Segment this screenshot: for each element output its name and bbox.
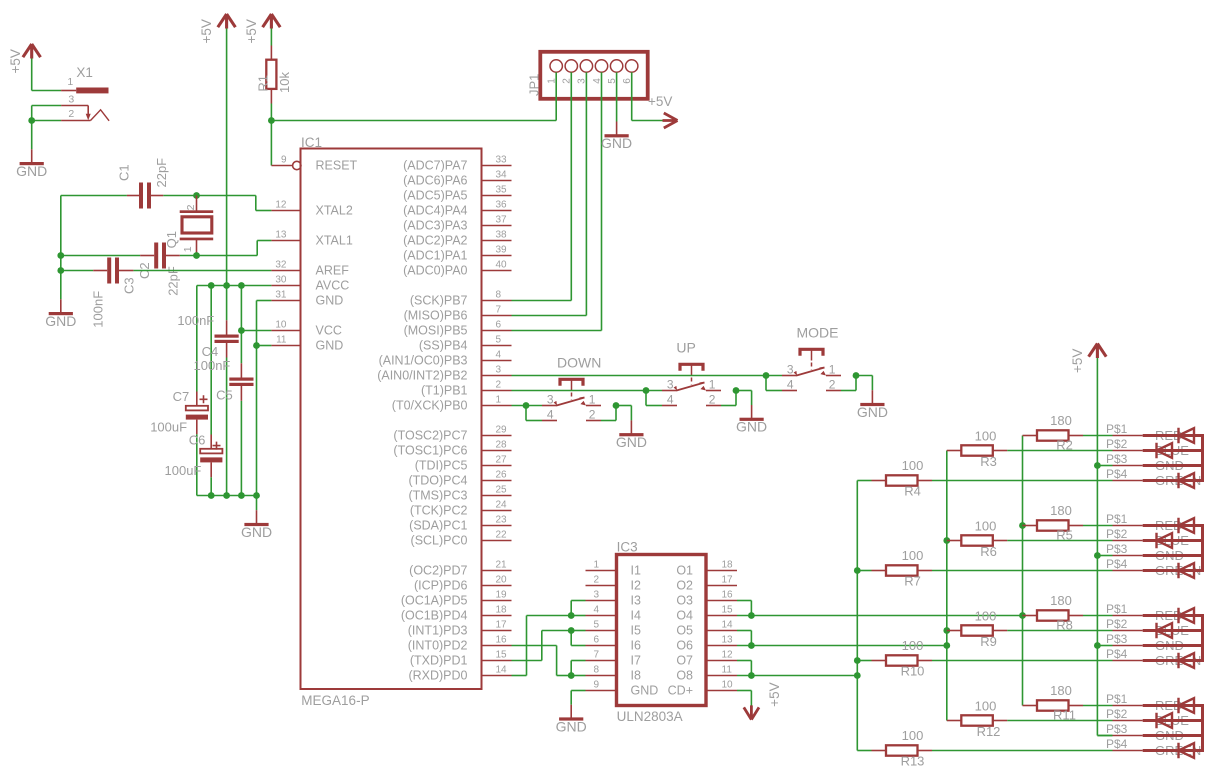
capacitor C5 column wire — [240, 286, 242, 364]
wire RESET node to JP1 pin1 — [271, 120, 556, 122]
svg-text:9: 9 — [281, 155, 287, 166]
power +5V arrow (R1) — [263, 14, 281, 29]
svg-text:22pF: 22pF — [154, 158, 169, 188]
wire O5 to O6 — [737, 630, 751, 632]
svg-text:1: 1 — [593, 560, 599, 571]
switch MODE pin 1 — [826, 375, 841, 377]
junction I5 node — [568, 627, 575, 634]
svg-text:I2: I2 — [631, 579, 641, 593]
svg-text:39: 39 — [496, 245, 508, 256]
power +5V arrow (LED rail) — [1089, 344, 1107, 359]
svg-text:X1: X1 — [76, 65, 93, 80]
resistor R1 — [270, 46, 272, 60]
pin 6 IC1 (MOSI)PB5 — [482, 330, 512, 332]
svg-text:VCC: VCC — [316, 324, 342, 338]
ground GND (crystal) — [60, 298, 62, 300]
svg-text:+5V: +5V — [8, 49, 23, 73]
wire R3 to LED — [1007, 450, 1112, 452]
pin 23 IC1 (SDA)PC1 — [482, 525, 512, 527]
wire LED rail stub group3 — [1097, 645, 1112, 647]
wire R5 to LED — [1083, 525, 1113, 527]
svg-text:AREF: AREF — [316, 264, 350, 278]
wire RXD PD0 to I4 — [512, 675, 527, 677]
svg-text:P$2: P$2 — [1106, 617, 1128, 631]
svg-text:100: 100 — [902, 638, 924, 653]
svg-text:24: 24 — [496, 500, 508, 511]
svg-text:100: 100 — [975, 518, 997, 533]
LED red group2 — [1179, 518, 1195, 533]
pin 24 IC1 (TCK)PC2 — [482, 510, 512, 512]
ground GND (decoupling) — [256, 496, 258, 511]
LED green group1 — [1179, 473, 1195, 488]
svg-text:(OC2)PD7: (OC2)PD7 — [409, 564, 467, 578]
svg-text:GND: GND — [601, 135, 632, 151]
pin 2 IC1 (T1)PB1 — [482, 390, 512, 392]
ground GND (DOWN) — [630, 406, 632, 421]
svg-text:(AIN1/OC0)PB3: (AIN1/OC0)PB3 — [379, 354, 468, 368]
svg-text:3: 3 — [68, 93, 74, 105]
svg-text:11: 11 — [276, 335, 287, 346]
pin 5 IC1 (SS)PB4 — [482, 345, 512, 347]
pin 30 IC1 AVCC — [271, 285, 300, 287]
svg-text:+5V: +5V — [648, 94, 672, 109]
pin 9 IC3 GND — [586, 690, 617, 692]
power +5V arrow down (CD+) — [744, 705, 759, 719]
pin 11 IC1 GND — [271, 345, 300, 347]
svg-text:(INT0)PD2: (INT0)PD2 — [408, 639, 468, 653]
svg-text:180: 180 — [1050, 413, 1072, 428]
svg-text:9: 9 — [593, 680, 599, 691]
junction GND pin11 node — [253, 342, 260, 349]
junction I8 node — [568, 672, 575, 679]
svg-text:180: 180 — [1050, 683, 1072, 698]
svg-text:10k: 10k — [277, 72, 292, 93]
svg-text:2: 2 — [589, 408, 596, 422]
LED module group4 pins — [1113, 705, 1143, 707]
svg-text:(MISO)PB6: (MISO)PB6 — [404, 309, 468, 323]
junction green feed R7 — [854, 567, 861, 574]
svg-text:GND: GND — [16, 163, 47, 179]
svg-text:R6: R6 — [980, 544, 997, 559]
pin 40 IC1 (ADC0)PA0 — [482, 270, 512, 272]
pin 19 IC1 (OC1A)PD5 — [482, 600, 512, 602]
switch MODE lever — [797, 368, 825, 376]
svg-text:21: 21 — [496, 560, 508, 571]
svg-text:2: 2 — [185, 204, 197, 210]
switch UP actuator bracket — [680, 364, 703, 370]
svg-text:4: 4 — [593, 605, 599, 616]
LED blue group3 — [1157, 623, 1173, 638]
wire TXD PD1 to I5 — [512, 660, 542, 662]
pin 3 IC3 I3 — [586, 600, 617, 602]
pin 2 IC3 I2 — [586, 585, 617, 587]
LED module group3 pins — [1113, 615, 1143, 617]
resistor R5 180 — [1023, 525, 1038, 527]
svg-text:35: 35 — [496, 185, 508, 196]
LED green group3 — [1179, 653, 1195, 668]
svg-text:R4: R4 — [904, 484, 921, 499]
svg-text:40: 40 — [496, 260, 508, 271]
svg-text:28: 28 — [496, 440, 508, 451]
svg-text:7: 7 — [593, 650, 599, 661]
svg-text:P$1: P$1 — [1106, 422, 1128, 436]
svg-text:(AIN0/INT2)PB2: (AIN0/INT2)PB2 — [377, 369, 467, 383]
LED module group4 internal bus — [1143, 704, 1203, 707]
ground GND (JP1) — [616, 121, 618, 123]
svg-text:32: 32 — [275, 260, 287, 271]
svg-text:MODE: MODE — [797, 325, 839, 341]
svg-text:CD+: CD+ — [668, 684, 693, 698]
svg-text:100nF: 100nF — [91, 291, 106, 328]
junction I4 node — [568, 612, 575, 619]
svg-text:100nF: 100nF — [194, 358, 231, 373]
wire R12 to LED — [1007, 720, 1112, 722]
svg-text:6: 6 — [593, 635, 599, 646]
svg-text:17: 17 — [722, 575, 734, 586]
svg-text:18: 18 — [496, 605, 508, 616]
svg-text:1: 1 — [182, 246, 194, 252]
svg-text:(ADC3)PA3: (ADC3)PA3 — [403, 219, 467, 233]
pin 38 IC1 (ADC2)PA2 — [482, 240, 512, 242]
capacitor C1 — [127, 195, 139, 197]
op-amp IC1 body (MEGA16-P) — [301, 149, 482, 690]
svg-text:4: 4 — [787, 378, 794, 392]
pin 1 IC1 (T0/XCK)PB0 — [482, 405, 512, 407]
svg-text:2: 2 — [496, 380, 502, 391]
switch MODE pin 2 — [826, 390, 841, 392]
svg-text:3: 3 — [667, 378, 674, 392]
wire O8 to green feed — [737, 675, 857, 677]
svg-text:O5: O5 — [676, 624, 693, 638]
junction XTAL2 node — [193, 192, 200, 199]
wire R9 to LED — [1007, 630, 1112, 632]
pin 22 IC1 (SCL)PC0 — [482, 540, 512, 542]
svg-text:2: 2 — [68, 108, 74, 120]
svg-text:37: 37 — [496, 215, 508, 226]
svg-text:18: 18 — [722, 560, 734, 571]
pin 1 IC3 I1 — [586, 570, 617, 572]
svg-text:R3: R3 — [980, 454, 997, 469]
wire MODE pin1 to gnd — [856, 375, 872, 377]
wire PB1 net to UP — [512, 390, 663, 392]
LED red group4 — [1179, 698, 1195, 713]
junction MODE right — [853, 372, 860, 379]
junction XTAL1 node — [193, 252, 200, 259]
wire LED rail stub group1 — [1097, 465, 1112, 467]
svg-text:R13: R13 — [901, 754, 925, 769]
svg-text:(RXD)PD0: (RXD)PD0 — [408, 669, 467, 683]
junction LED rail P$3 group1 — [1094, 462, 1101, 469]
wire JP1 pin3 to PB6 — [585, 72, 587, 315]
crystal Q1 — [196, 196, 198, 211]
pin 12 IC3 O7 — [706, 660, 737, 662]
svg-text:(ADC5)PA5: (ADC5)PA5 — [403, 189, 467, 203]
wire R1 to RESET node — [270, 104, 272, 121]
resistor R12 100 — [947, 720, 962, 722]
switch DOWN pin 4 — [542, 420, 557, 422]
svg-text:RESET: RESET — [316, 159, 358, 173]
junction DOWN right — [613, 402, 620, 409]
junction blue feed O6 — [943, 642, 950, 649]
svg-text:GND: GND — [857, 404, 888, 420]
wire O6 to blue feed — [737, 645, 947, 647]
pin 8 IC3 I8 — [586, 675, 617, 677]
switch UP pin 4 — [662, 405, 677, 407]
svg-text:(SCK)PB7: (SCK)PB7 — [410, 294, 468, 308]
pin 29 IC1 (TOSC2)PC7 — [482, 435, 512, 437]
svg-text:100: 100 — [902, 548, 924, 563]
svg-text:1: 1 — [496, 395, 502, 406]
junction MODE left — [763, 372, 770, 379]
wire red feed vertical — [1022, 436, 1024, 706]
LED module group3 internal bus — [1143, 614, 1203, 617]
wire R7 to LED — [932, 570, 1113, 572]
svg-text:O8: O8 — [676, 669, 693, 683]
capacitor C5 — [240, 363, 242, 377]
pin 8 IC1 (SCK)PB7 — [482, 300, 512, 302]
wire LED rail corner group4 — [1097, 735, 1112, 737]
wire R13 to LED — [932, 750, 1113, 752]
wire JP1 pin5 to GND — [616, 72, 618, 121]
svg-text:P$3: P$3 — [1106, 452, 1128, 466]
svg-text:33: 33 — [496, 155, 508, 166]
svg-text:100: 100 — [975, 608, 997, 623]
switch DOWN actuator bracket — [560, 379, 583, 385]
capacitor C7 column wire — [196, 286, 198, 392]
pin 14 IC3 O5 — [706, 630, 737, 632]
svg-text:I5: I5 — [631, 624, 641, 638]
switch DOWN actuator stem — [571, 379, 573, 390]
pin 34 IC1 (ADC6)PA6 — [482, 180, 512, 182]
pin 10 IC3 CD+ — [706, 690, 737, 692]
junction bottom gnd — [253, 492, 260, 499]
LED module group1 pins — [1113, 435, 1143, 437]
pin 18 IC3 O1 — [706, 570, 737, 572]
wire LED rail stub group4 — [1097, 735, 1112, 737]
junction bottom C5 — [238, 492, 245, 499]
power +5V arrow (JP1) — [663, 113, 678, 128]
svg-text:16: 16 — [722, 590, 734, 601]
wire VCC pin10 net — [241, 330, 271, 332]
pin 18 IC1 (OC1B)PD4 — [482, 615, 512, 617]
svg-text:1: 1 — [67, 76, 73, 88]
svg-text:XTAL2: XTAL2 — [316, 204, 353, 218]
resistor R4 100 — [857, 480, 871, 482]
wire JP1 pin1 down — [555, 72, 557, 120]
svg-text:P$2: P$2 — [1106, 527, 1128, 541]
svg-text:P$3: P$3 — [1106, 542, 1128, 556]
svg-text:P$4: P$4 — [1106, 467, 1128, 481]
pin 26 IC1 (TDO)PC4 — [482, 480, 512, 482]
capacitor C4 — [226, 320, 228, 334]
svg-text:MEGA16-P: MEGA16-P — [301, 693, 369, 708]
pin 31 IC1 GND — [271, 300, 300, 302]
svg-text:DOWN: DOWN — [557, 355, 601, 371]
svg-text:3: 3 — [547, 393, 554, 407]
svg-text:2: 2 — [829, 378, 836, 392]
switch UP pin 3 — [662, 390, 677, 392]
junction LED rail P$3 group2 — [1094, 552, 1101, 559]
svg-text:26: 26 — [496, 470, 508, 481]
switch DOWN pin 1 — [586, 405, 601, 407]
pin 13 IC1 XTAL1 — [271, 240, 300, 242]
capacitor C3 — [93, 270, 107, 272]
wire R10 to LED — [932, 660, 1113, 662]
resistor R11 180 — [1023, 705, 1038, 707]
svg-text:P$3: P$3 — [1106, 722, 1128, 736]
svg-text:5: 5 — [593, 620, 599, 631]
svg-text:I3: I3 — [631, 594, 641, 608]
wire O4 to red feed — [737, 615, 1023, 617]
svg-text:IC1: IC1 — [301, 135, 322, 150]
svg-text:14: 14 — [496, 665, 508, 676]
svg-text:R1: R1 — [256, 75, 271, 92]
wire DOWN pin4 loop — [525, 406, 527, 421]
svg-text:100uF: 100uF — [165, 463, 202, 478]
wire I3 link — [570, 601, 572, 616]
junction O8 node — [748, 672, 755, 679]
svg-text:I1: I1 — [631, 564, 641, 578]
ground GND (X1) — [31, 121, 33, 150]
svg-text:36: 36 — [496, 200, 508, 211]
svg-text:13: 13 — [275, 230, 287, 241]
pin 27 IC1 (TDI)PC5 — [482, 465, 512, 467]
svg-text:GND: GND — [616, 434, 647, 450]
pin 25 IC1 (TMS)PC3 — [482, 495, 512, 497]
wire IC3 GND pin9 — [571, 690, 585, 692]
pin 17 IC3 O2 — [706, 585, 737, 587]
svg-text:3: 3 — [496, 365, 502, 376]
svg-text:(T1)PB1: (T1)PB1 — [421, 384, 468, 398]
wire UP pin4 loop — [645, 391, 647, 406]
svg-text:O1: O1 — [676, 564, 693, 578]
svg-text:O4: O4 — [676, 609, 693, 623]
svg-text:AVCC: AVCC — [316, 279, 350, 293]
svg-text:JP1: JP1 — [526, 74, 541, 96]
svg-text:30: 30 — [275, 275, 287, 286]
svg-text:8: 8 — [496, 290, 502, 301]
wire GND pin11 net — [257, 345, 272, 347]
svg-text:R12: R12 — [977, 724, 1001, 739]
resistor R9 100 — [947, 630, 962, 632]
svg-text:13: 13 — [722, 635, 734, 646]
svg-text:(TDI)PC5: (TDI)PC5 — [415, 459, 468, 473]
capacitor C2 — [140, 255, 154, 257]
svg-text:2: 2 — [593, 575, 599, 586]
svg-text:GND: GND — [631, 684, 659, 698]
ground GND (MODE) — [871, 376, 873, 391]
svg-text:I8: I8 — [631, 669, 641, 683]
svg-text:1: 1 — [709, 378, 716, 392]
junction DOWN left — [523, 402, 530, 409]
svg-text:34: 34 — [496, 170, 508, 181]
power +5V supply arrow (X1) — [23, 44, 41, 59]
svg-text:(ADC1)PA1: (ADC1)PA1 — [403, 249, 467, 263]
LED green group4 — [1179, 743, 1195, 758]
svg-text:4: 4 — [667, 393, 674, 407]
svg-text:19: 19 — [496, 590, 508, 601]
wire left gnd column — [60, 196, 62, 300]
svg-text:(TOSC1)PC6: (TOSC1)PC6 — [393, 444, 467, 458]
junction UP right — [733, 387, 740, 394]
svg-text:P$4: P$4 — [1106, 557, 1128, 571]
svg-text:(ADC7)PA7: (ADC7)PA7 — [403, 159, 467, 173]
svg-text:(TCK)PC2: (TCK)PC2 — [410, 504, 468, 518]
svg-text:GND: GND — [316, 294, 344, 308]
svg-text:7: 7 — [496, 305, 502, 316]
pin 16 IC3 O3 — [706, 600, 737, 602]
svg-text:C3: C3 — [122, 277, 137, 294]
resistor R13 100 — [857, 750, 871, 752]
svg-text:27: 27 — [496, 455, 508, 466]
svg-text:(ADC6)PA6: (ADC6)PA6 — [403, 174, 467, 188]
connector X1 power jack — [61, 90, 76, 92]
svg-text:15: 15 — [496, 650, 508, 661]
pin 21 IC1 (OC2)PD7 — [482, 570, 512, 572]
wire R6 to LED — [1007, 540, 1112, 542]
svg-text:I6: I6 — [631, 639, 641, 653]
wire RESET node down to IC1 RESET pin — [270, 121, 272, 166]
svg-text:100uF: 100uF — [150, 420, 187, 435]
ground GND (IC3) — [570, 704, 572, 706]
wire DOWN pin2 loop — [601, 420, 616, 422]
wire PB2 net to MODE — [512, 375, 783, 377]
svg-text:(TXD)PD1: (TXD)PD1 — [410, 654, 468, 668]
svg-text:(TDO)PC4: (TDO)PC4 — [408, 474, 467, 488]
svg-text:4: 4 — [547, 408, 554, 422]
svg-text:100nF: 100nF — [177, 313, 214, 328]
junction C2 left — [57, 252, 64, 259]
wire MODE pin2 loop — [841, 390, 856, 392]
svg-text:180: 180 — [1050, 593, 1072, 608]
svg-text:(ADC0)PA0: (ADC0)PA0 — [403, 264, 467, 278]
svg-text:(SS)PB4: (SS)PB4 — [419, 339, 468, 353]
pin 37 IC1 (ADC3)PA3 — [482, 225, 512, 227]
capacitor C4 column wire — [226, 286, 228, 321]
wire green feed vertical — [856, 481, 858, 751]
svg-text:(OC1A)PD5: (OC1A)PD5 — [401, 594, 468, 608]
wire +5V to X1 pin1 — [31, 59, 33, 91]
wire R4 to LED — [932, 480, 1113, 482]
svg-text:C6: C6 — [189, 433, 206, 448]
junction LED rail P$3 group3 — [1094, 642, 1101, 649]
pin 20 IC1 (ICP)PD6 — [482, 585, 512, 587]
svg-text:Q1: Q1 — [164, 231, 179, 248]
svg-text:GND: GND — [556, 718, 587, 734]
wire MODE pin4 loop — [765, 376, 767, 391]
svg-text:29: 29 — [496, 425, 508, 436]
svg-text:O2: O2 — [676, 579, 693, 593]
switch DOWN pin 3 — [542, 405, 557, 407]
svg-text:ULN2803A: ULN2803A — [617, 709, 683, 724]
svg-text:(INT1)PD3: (INT1)PD3 — [408, 624, 468, 638]
svg-text:100: 100 — [975, 428, 997, 443]
LED module group2 pins — [1113, 525, 1143, 527]
svg-text:+5V: +5V — [244, 19, 259, 43]
junction UP left — [643, 387, 650, 394]
resistor R2 180 — [1023, 435, 1038, 437]
svg-text:I4: I4 — [631, 609, 641, 623]
pin 32 IC1 AREF — [271, 270, 300, 272]
LED module group2 internal bus — [1143, 524, 1203, 527]
junction red feed O4 — [1019, 612, 1026, 619]
pin 10 IC1 VCC — [271, 330, 300, 332]
svg-text:P$1: P$1 — [1106, 512, 1128, 526]
switch MODE pin 4 — [782, 390, 797, 392]
svg-text:(ADC4)PA4: (ADC4)PA4 — [403, 204, 467, 218]
svg-text:22: 22 — [496, 530, 508, 541]
svg-text:16: 16 — [496, 635, 508, 646]
